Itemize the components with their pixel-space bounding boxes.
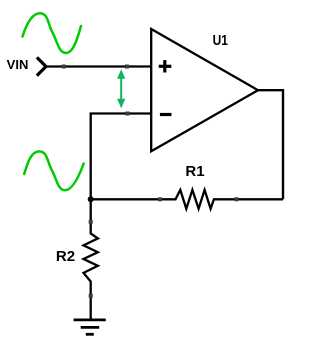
resistor R2 (to ground) [84,199,98,318]
output wire from apex down to feedback [258,90,283,199]
anchor on + wire [62,65,66,69]
svg-text:R1: R1 [185,163,204,180]
anchor on + wire near arrow [125,65,129,69]
wire VIN to + input [46,65,153,67]
op-amp U1 triangle [151,29,258,151]
node junction dot [88,196,94,202]
anchor on R1 left lead [158,197,162,201]
ground symbol [74,320,106,334]
wire - input to node (L-shape) [91,114,152,200]
anchor on R1 right lead [235,197,239,201]
resistor R1 (feedback) [91,190,283,209]
anchor on - wire [125,112,129,116]
measurement arrow (green, double-headed) [117,69,125,108]
plus symbol (non-inverting input) [159,60,172,72]
svg-text:U1: U1 [213,32,229,49]
feedback sine wave (lower) [24,151,83,190]
minus symbol (inverting input) [160,113,172,116]
anchor on R2 top lead [89,220,93,224]
anchor on R2 bottom lead [89,294,93,298]
svg-text:R2: R2 [56,248,75,265]
input sine wave (top) [23,13,82,53]
svg-text:VIN: VIN [7,57,29,72]
input port symbol [38,59,46,75]
